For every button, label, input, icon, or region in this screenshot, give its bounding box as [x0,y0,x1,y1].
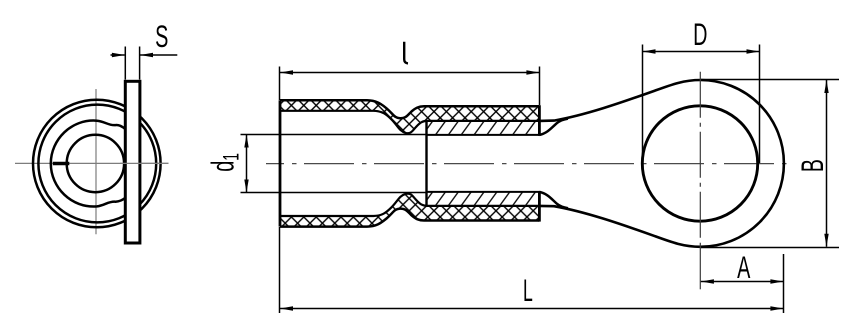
svg-text:A: A [737,249,751,285]
tongue plate edge view (front) [125,81,140,243]
dimension S lines and arrows [111,54,125,56]
dimension d1 line [246,135,248,193]
dimension S extension lines [124,47,126,80]
l / L left extension line [279,67,281,101]
wire hole circle d1 (front) [67,135,124,192]
sleeve inner-mouth circle (front) [38,105,156,223]
dimension D line [643,51,760,53]
svg-text:D: D [693,16,707,52]
sleeve end edge top [538,105,541,136]
top sleeve inner edge [280,111,539,133]
D extension lines [642,45,644,156]
tongue outline to ring [539,80,784,247]
svg-text:d1: d1 [205,153,244,172]
barrel mouth edge [425,121,427,206]
ring vertical centerline [699,72,701,243]
bottom insulation band region [280,194,539,227]
dimension B line [826,80,828,247]
bottom metal barrel section [427,192,540,206]
crimp funnel wave curve (front) [51,121,126,207]
blade flare curve top [539,119,568,135]
l right extension line [539,67,541,106]
sleeve outer circle (front) [33,100,161,228]
svg-text:S: S [155,18,168,54]
bottom sleeve inner edge [280,194,539,216]
main horizontal centerline [266,163,788,165]
front view horizontal centerline [15,162,169,164]
barrel seam line (front) [53,162,70,165]
dimension l line [280,72,539,74]
blade flare curve bottom [539,192,568,208]
top insulation band region [280,100,539,133]
front centerline over plate [120,162,169,164]
svg-text:L: L [523,274,533,309]
top sleeve outer edge [280,100,539,118]
dimension A line [701,281,784,283]
bore line top (d1) [241,134,427,136]
dimension L line [280,308,783,310]
B extension lines [701,79,839,81]
sleeve end edge bottom [538,191,541,222]
svg-text:B: B [794,159,830,172]
A right extension line [783,254,785,313]
label l [404,42,408,64]
ring hole circle [642,106,757,221]
front view vertical centerline [95,89,97,234]
sleeve mouth edge [279,100,282,226]
bore line bottom (d1) [241,192,427,194]
top metal barrel section [427,121,540,135]
bottom sleeve outer edge [280,209,539,227]
